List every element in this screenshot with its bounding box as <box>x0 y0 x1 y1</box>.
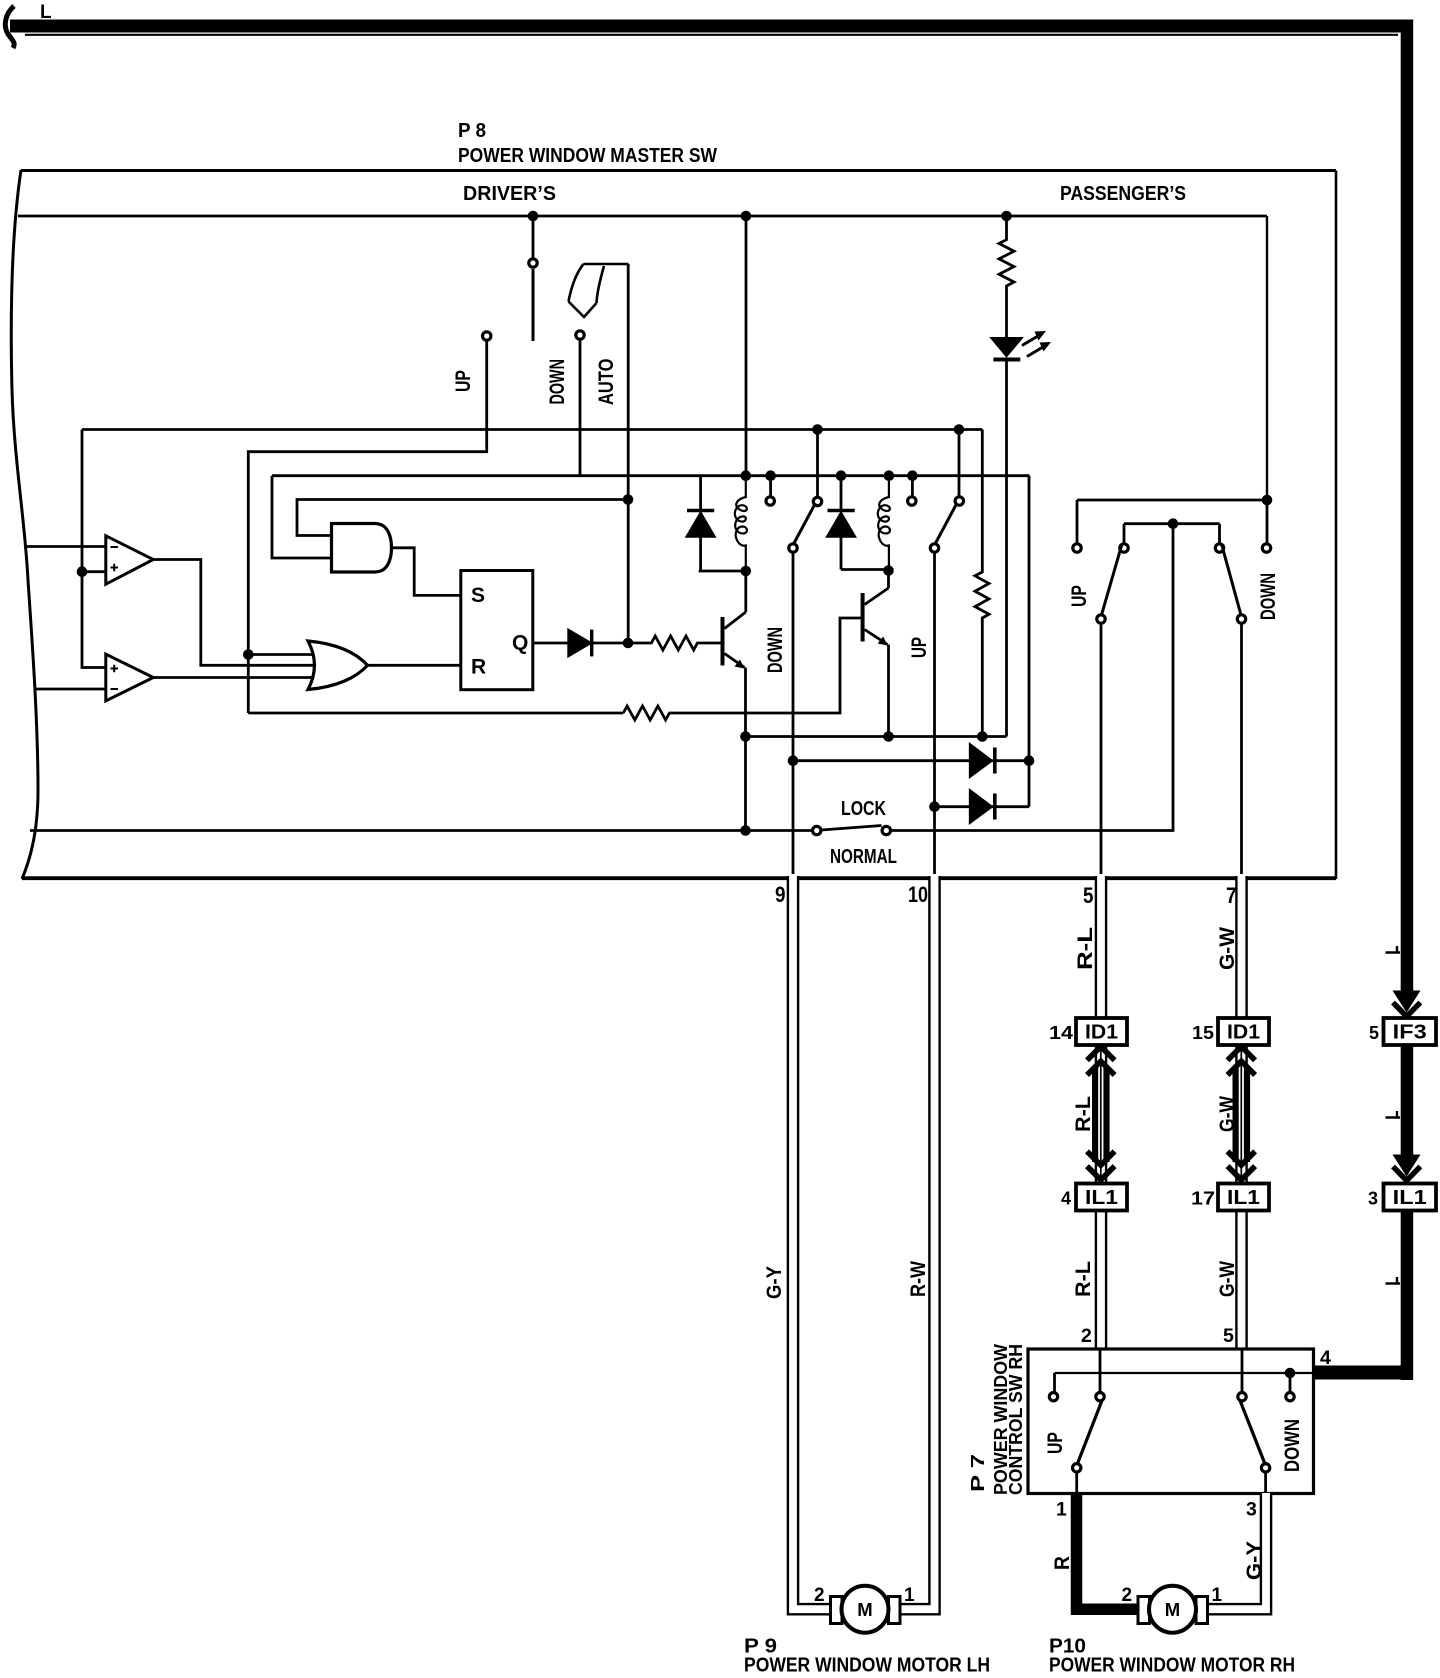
switch SW3 passenger window switch: upper feed line <box>1077 499 1267 502</box>
switch SW4 UP throw contact circle <box>1096 1393 1104 1401</box>
svg-text:14: 14 <box>1049 1023 1073 1043</box>
connector direction arrow ID1 to IL1 (R-L): center line <box>1100 1049 1102 1180</box>
svg-text:P 8: P 8 <box>458 120 486 142</box>
wire: op-amp U1 output to OR gate <box>153 560 318 666</box>
switch SW4 DOWN arm <box>1240 1401 1265 1464</box>
svg-text:15: 15 <box>1192 1023 1214 1043</box>
wire: P7 feed left corner down <box>1053 1373 1056 1392</box>
svg-text:R-W: R-W <box>907 1261 930 1297</box>
svg-text:IL1: IL1 <box>1227 1187 1260 1209</box>
LED D7 triangle <box>991 338 1023 357</box>
switch SW4 DOWN pivot circle <box>1261 1464 1269 1472</box>
svg-text:2: 2 <box>814 1585 825 1606</box>
node junction dot on rail at driver switch <box>528 211 539 222</box>
diode D5 cathode bar <box>993 748 997 774</box>
wire L: off-page hook squiggle <box>5 6 14 48</box>
wire: feed from supply rail to relay rail <box>745 216 748 476</box>
svg-text:R-L: R-L <box>1072 1096 1095 1132</box>
node junction dot AUTO at base resistor line <box>623 638 634 649</box>
svg-text:17: 17 <box>1191 1189 1215 1209</box>
switch SW4 UP arm <box>1078 1401 1103 1464</box>
switch SW3 UP arm <box>1102 544 1123 615</box>
diode D5 triangle <box>970 744 993 778</box>
P8 box right edge <box>1335 171 1338 880</box>
transistor Q2 emitter arrowhead <box>878 637 888 646</box>
svg-text:DOWN: DOWN <box>1257 573 1280 620</box>
relay K2 fixed contact circle <box>908 497 916 505</box>
transistor Q1 collector diagonal <box>725 612 746 629</box>
svg-text:5: 5 <box>1083 883 1094 908</box>
switch SW4 DOWN fixed contact circle <box>1286 1393 1294 1401</box>
wire stub on thick wire 3 <box>1386 1277 1401 1284</box>
svg-text:R: R <box>1051 1556 1074 1570</box>
node junction dot UP line to OR gate <box>243 649 254 660</box>
svg-text:7: 7 <box>1226 883 1237 908</box>
P8 power window master switch box: torn left edge <box>11 170 38 879</box>
diode D3 flyback for K1: feed wire <box>699 476 702 571</box>
svg-text:5: 5 <box>1223 1325 1234 1347</box>
switch SW3 DOWN fixed contact circle <box>1262 544 1270 552</box>
relay K1 throw contact circle <box>813 497 821 505</box>
svg-text:LOCK: LOCK <box>841 797 886 820</box>
connector ID1 box (G-W) <box>1218 1018 1269 1045</box>
wire: UP branch to OR gate top input <box>248 653 313 656</box>
svg-text:NORMAL: NORMAL <box>830 845 897 868</box>
wire: feed to K2 switch throw <box>958 430 961 497</box>
wire: lower line to Q2 base <box>248 712 623 715</box>
wire: coil K1 bottom junction <box>699 571 746 612</box>
svg-text:POWER WINDOW MASTER SW: POWER WINDOW MASTER SW <box>458 145 717 167</box>
svg-text:ID1: ID1 <box>1085 1022 1118 1044</box>
wire 7 inside box: DOWN pivot down to pin 7 <box>1240 624 1243 876</box>
transistor Q2 UP driver: base bar <box>861 593 865 642</box>
node dot lock line at Q1 emitter branch <box>740 825 751 836</box>
wire: LED cathode down to emitter line <box>1005 362 1008 737</box>
svg-text:UP: UP <box>908 637 931 658</box>
wire: UP pivot down to pin 1 <box>1075 1473 1078 1492</box>
node dot wire9 at diode D5 line <box>788 755 799 766</box>
diode D6 cathode bar <box>993 794 997 820</box>
LED D7 light arrow 2 <box>1027 347 1043 357</box>
wire 7 G-W harness run to P7 <box>1235 876 1248 1351</box>
connector direction arrow ID1 to IL1 (G-W): center line <box>1240 1049 1242 1180</box>
switch SW3 DOWN throw contact circle <box>1215 544 1223 552</box>
wire: left branch down to op-amps <box>82 430 106 668</box>
svg-text:G-Y: G-Y <box>763 1266 786 1299</box>
arrow shaft bars <box>1233 1066 1239 1162</box>
svg-text:IF3: IF3 <box>1393 1022 1427 1044</box>
switch SW1 UP contact circle <box>483 332 491 340</box>
switch SW1 DOWN contact circle <box>576 331 584 339</box>
diode D1 cathode bar <box>590 630 593 657</box>
relay K1 arm pivot circle <box>789 544 797 552</box>
P7 power window control switch RH box <box>1028 1349 1314 1494</box>
op-amp U2 comparator triangle <box>106 654 154 701</box>
wire: AND bottom input from relay rail <box>272 476 332 558</box>
relay K1 fixed contact stub <box>769 476 772 496</box>
switch SW3 center link line <box>1124 522 1220 525</box>
motor P10 RH: right terminal bracket <box>1196 1597 1208 1624</box>
wire: pin 5 down to throw contact <box>1241 1350 1244 1392</box>
diode D4 cathode bar <box>828 509 855 512</box>
wire: upper horizontal line y=429.5 from op-amp branch <box>82 428 982 431</box>
relay K1 switch arm <box>793 503 816 546</box>
or-gate O1 body <box>308 641 368 690</box>
LED D7 cathode bar <box>993 358 1020 362</box>
node junction dot on rail at relay feed <box>741 211 752 222</box>
node dot relay rail at diode D2 <box>836 470 847 481</box>
wire: lock line left of switch <box>30 829 812 832</box>
wire: Q output <box>533 642 569 645</box>
svg-text:M: M <box>1165 1599 1180 1620</box>
node dot emitter line at Q2 <box>883 731 894 742</box>
switch SW2 arm <box>822 826 882 831</box>
node dot center link to lock line <box>1168 518 1179 529</box>
wire L: thick battery feed top bar <box>10 20 1413 33</box>
wire L: thick bottom corner to P7 pin4 <box>1313 1366 1413 1380</box>
arrow up chevrons at ID1 <box>1087 1047 1115 1076</box>
resistor R3 vertical from y=429.5 line <box>975 430 989 737</box>
LED D7 light arrow 1 <box>1022 336 1038 346</box>
relay K1 DOWN coil <box>735 476 747 571</box>
motor P10 RH: body circle <box>1149 1586 1196 1633</box>
svg-text:POWER WINDOW MOTOR LH: POWER WINDOW MOTOR LH <box>744 1654 990 1677</box>
svg-text:DOWN: DOWN <box>764 627 787 673</box>
op-amp U1 plus mark <box>111 564 119 572</box>
svg-text:UP: UP <box>1068 585 1091 607</box>
switch SW2 LOCK contact circle right <box>882 826 890 834</box>
diode D3 cathode bar <box>687 509 714 512</box>
wire: op-amp U2 output to OR gate <box>153 676 313 679</box>
connector arrow into IF3 (thick wire) <box>1393 991 1421 1013</box>
transistor Q2 collector diagonal <box>865 588 889 605</box>
switch SW3 DOWN arm pivot circle <box>1237 615 1245 623</box>
wire: P7 feed DOWN branch down <box>1289 1373 1292 1392</box>
transistor Q2 emitter diagonal <box>865 630 888 645</box>
wire: rail corner down to passenger DOWN contact <box>1266 216 1268 500</box>
wire: center link left corner down <box>1123 524 1126 543</box>
svg-text:ID1: ID1 <box>1227 1022 1260 1044</box>
svg-text:5: 5 <box>1369 1023 1379 1043</box>
switch SW1 AUTO actuator wedge <box>569 264 629 317</box>
svg-text:R-L: R-L <box>1072 1261 1095 1297</box>
switch SW1 common contact circle <box>529 259 537 267</box>
motor P9 LH: right terminal bracket <box>889 1597 901 1624</box>
svg-text:S: S <box>471 584 485 607</box>
switch SW3 UP fixed contact circle <box>1073 544 1081 552</box>
svg-text:UP: UP <box>1044 1432 1067 1454</box>
svg-text:G-W: G-W <box>1216 927 1239 970</box>
wire: diode D1 to AUTO junction <box>592 642 628 645</box>
node dot relay rail at coil K1 <box>741 470 752 481</box>
wire G-Y from P7 pin3 to motor RH <box>1207 1495 1266 1609</box>
wire R thick from P7 pin1 to motor RH <box>1077 1495 1139 1609</box>
svg-text:PASSENGER’S: PASSENGER’S <box>1060 182 1186 205</box>
wire 9 inside box: K1 pivot down to pin 9 <box>792 553 795 876</box>
node dot wire10 at diode D6 line <box>929 801 940 812</box>
switch SW4 DOWN throw contact circle <box>1238 1393 1246 1401</box>
wire: DOWN contact down to relay rail <box>579 340 582 476</box>
wire: UP contact down and left to logic <box>248 341 486 713</box>
svg-text:10: 10 <box>908 882 928 907</box>
arrow up chevrons at ID1 <box>1228 1047 1256 1076</box>
svg-text:2: 2 <box>1122 1585 1133 1606</box>
op-amp U1 comparator triangle <box>106 536 154 584</box>
relay K2 arm pivot circle <box>930 544 938 552</box>
motor P10 RH: left terminal bracket <box>1138 1597 1150 1624</box>
wire: OR output to SR latch R <box>368 664 461 667</box>
svg-text:CONTROL SW RH: CONTROL SW RH <box>1005 1344 1026 1495</box>
switch SW4 UP fixed contact circle <box>1049 1393 1057 1401</box>
resistor R1 base resistor of Q1 <box>628 636 721 650</box>
connector IL1 box (G-W) <box>1218 1184 1269 1211</box>
switch SW3 UP arm pivot circle <box>1097 615 1105 623</box>
wire L: thick right-side vertical <box>1401 20 1414 992</box>
connector arrow into IL1 (thick wire) <box>1393 1155 1421 1177</box>
node dot relay rail at contact K2 <box>907 470 918 481</box>
node dot relay rail at contact K1 <box>765 470 776 481</box>
wire: relay common rail <box>272 474 1030 477</box>
op-amp U2 plus mark <box>111 665 119 673</box>
wire 9 G-Y harness run to motor LH <box>793 876 831 1609</box>
connector IF3 box (thick wire) <box>1384 1018 1437 1045</box>
wire: op-amp U1 inverting input from page edge <box>25 545 106 548</box>
wire 5 R-L harness run to P7 <box>1095 876 1108 1351</box>
wire: AND top input from AUTO junction line <box>297 500 628 536</box>
wire: lock line right of switch to passenger branch <box>891 524 1173 831</box>
svg-text:G-Y: G-Y <box>1243 1541 1266 1580</box>
wire: feed to K1 switch throw <box>816 430 819 497</box>
svg-text:4: 4 <box>1320 1347 1331 1369</box>
motor P9 LH: left terminal bracket <box>831 1597 843 1624</box>
svg-text:POWER WINDOW MOTOR RH: POWER WINDOW MOTOR RH <box>1049 1654 1295 1677</box>
LED D7 light arrow 1 head <box>1035 331 1047 341</box>
wire: AUTO line down <box>627 264 630 643</box>
node dot emitter line at Q1 <box>740 731 751 742</box>
svg-text:DOWN: DOWN <box>546 359 569 405</box>
node junction dot feed DOWN-relay switch <box>812 424 823 435</box>
diode D4 triangle <box>827 512 856 537</box>
svg-text:AUTO: AUTO <box>595 359 618 406</box>
connector ID1 box (R-L) <box>1076 1018 1127 1045</box>
node junction dot feed UP-relay switch <box>954 424 965 435</box>
switch SW1 arm <box>532 269 535 341</box>
switch SW3 DOWN arm <box>1222 544 1242 615</box>
svg-text:1: 1 <box>1212 1585 1223 1606</box>
wire: corner down to UP fixed contact <box>1076 500 1079 543</box>
connector IL1 box (thick wire) <box>1384 1184 1437 1211</box>
svg-text:DOWN: DOWN <box>1281 1419 1304 1472</box>
svg-text:DRIVER’S: DRIVER’S <box>463 182 556 205</box>
wire: DOWN pivot down to pin 3 <box>1264 1473 1267 1492</box>
relay K2 switch arm <box>934 503 957 546</box>
arrow down chevrons at IL1 (R-L) <box>1087 1151 1115 1180</box>
connector IL1 box (R-L) <box>1076 1184 1127 1211</box>
diode D3 triangle <box>686 512 715 537</box>
LED D7 light arrow 2 head <box>1040 342 1052 352</box>
svg-text:4: 4 <box>1061 1189 1071 1209</box>
arrow shaft bars <box>1092 1066 1098 1162</box>
P8 box bottom edge <box>22 876 1336 880</box>
svg-text:L: L <box>40 2 52 23</box>
switch SW1 driver's window switch: stem from rail <box>532 218 535 258</box>
node dot emitter line at R3 <box>977 731 988 742</box>
svg-text:UP: UP <box>452 370 475 392</box>
wire 5 inside box: UP pivot down to pin 5 <box>1100 624 1103 876</box>
svg-text:3: 3 <box>1368 1189 1378 1209</box>
node dot P7 feed at DOWN branch <box>1285 1368 1296 1379</box>
svg-text:Q: Q <box>512 632 528 655</box>
diode D1 on Q output <box>568 630 591 657</box>
switch SW2 LOCK contact circle left <box>813 826 821 834</box>
node junction dot AUTO x AND-feed <box>623 494 634 505</box>
wire: diode D5 row <box>793 759 1029 762</box>
wire 10 R-W harness run to motor LH <box>899 876 935 1609</box>
switch SW3 UP throw contact circle <box>1120 544 1128 552</box>
wire: main supply rail inside P8 <box>18 215 1267 218</box>
P8 box top edge <box>21 169 1336 172</box>
node dot relay rail at coil K2 <box>884 470 895 481</box>
resistor R4 LED series resistor <box>999 218 1014 338</box>
wire: emitter common line <box>746 735 1007 738</box>
svg-text:P 7: P 7 <box>967 1454 988 1492</box>
svg-text:9: 9 <box>775 882 786 907</box>
resistor R2 base resistor of Q2 <box>623 618 861 720</box>
svg-text:IL1: IL1 <box>1085 1187 1118 1209</box>
wire 10 inside box: K2 pivot down to pin 10 <box>933 553 936 876</box>
wire: thin line under thick bar <box>25 34 1398 36</box>
wire: branch to op-amp1 plus input <box>82 570 106 573</box>
wire stub on thick wire 1 <box>1386 946 1401 953</box>
svg-text:1: 1 <box>904 1585 915 1606</box>
transistor Q1 DOWN driver: base bar <box>721 617 725 666</box>
arrow down chevrons at IL1 (G-W) <box>1228 1151 1256 1180</box>
wire: center link right corner down <box>1218 524 1221 543</box>
wire: relay rail right corner down through diode rows <box>1028 476 1031 807</box>
svg-text:IL1: IL1 <box>1393 1187 1427 1209</box>
node dot passenger feed from rail <box>1262 495 1273 506</box>
flip-flop U3 SR latch box <box>461 571 533 690</box>
node junction dot op-amp1 plus input <box>77 566 88 577</box>
op-amp U1 minus mark <box>111 546 119 548</box>
diode D4 flyback for K2: feed wire <box>840 476 843 570</box>
relay K2 UP coil <box>878 476 890 571</box>
wire: Q2 emitter down <box>887 645 890 737</box>
and-gate A1 body <box>332 524 392 573</box>
op-amp U2 minus mark <box>111 688 119 690</box>
transistor Q1 emitter diagonal <box>725 654 745 668</box>
wire: Q1 emitter junction down to lock line <box>744 737 747 831</box>
wire: down to DOWN fixed contact <box>1266 500 1269 543</box>
svg-text:R-L: R-L <box>1074 927 1097 970</box>
wire: pin 2 down to throw contact <box>1099 1350 1102 1392</box>
svg-text:G-W: G-W <box>1216 1261 1239 1297</box>
svg-text:1: 1 <box>1056 1499 1067 1521</box>
node dot at D5 right end <box>1024 755 1035 766</box>
wire: AND output to SR latch S <box>391 548 461 596</box>
wire: coil K2 bottom junction <box>841 570 889 589</box>
svg-text:2: 2 <box>1081 1325 1092 1347</box>
transistor Q1 emitter arrowhead <box>735 660 745 669</box>
wire stub on thick wire 2 <box>1386 1111 1401 1118</box>
svg-text:M: M <box>857 1599 872 1620</box>
wire: op-amp U2 inverting input from page edge <box>35 688 106 691</box>
diode D6 triangle <box>970 790 993 824</box>
wire: diode D6 row <box>935 805 1030 808</box>
wire: Q1 emitter down <box>744 668 747 737</box>
relay K2 fixed contact stub <box>911 476 914 496</box>
relay K1 fixed contact circle <box>766 497 774 505</box>
svg-text:R: R <box>471 656 486 679</box>
node junction dot on rail at LED feed <box>1001 211 1012 222</box>
wire: P7 internal feed line from pin 4 <box>1055 1372 1314 1374</box>
motor P9 LH: body circle <box>842 1586 889 1633</box>
node dot coil K1 bottom <box>741 566 752 577</box>
node dot coil K2 bottom <box>883 565 894 576</box>
relay K2 throw contact circle <box>955 497 963 505</box>
svg-text:3: 3 <box>1246 1499 1257 1521</box>
switch SW4 UP pivot circle <box>1073 1464 1081 1472</box>
